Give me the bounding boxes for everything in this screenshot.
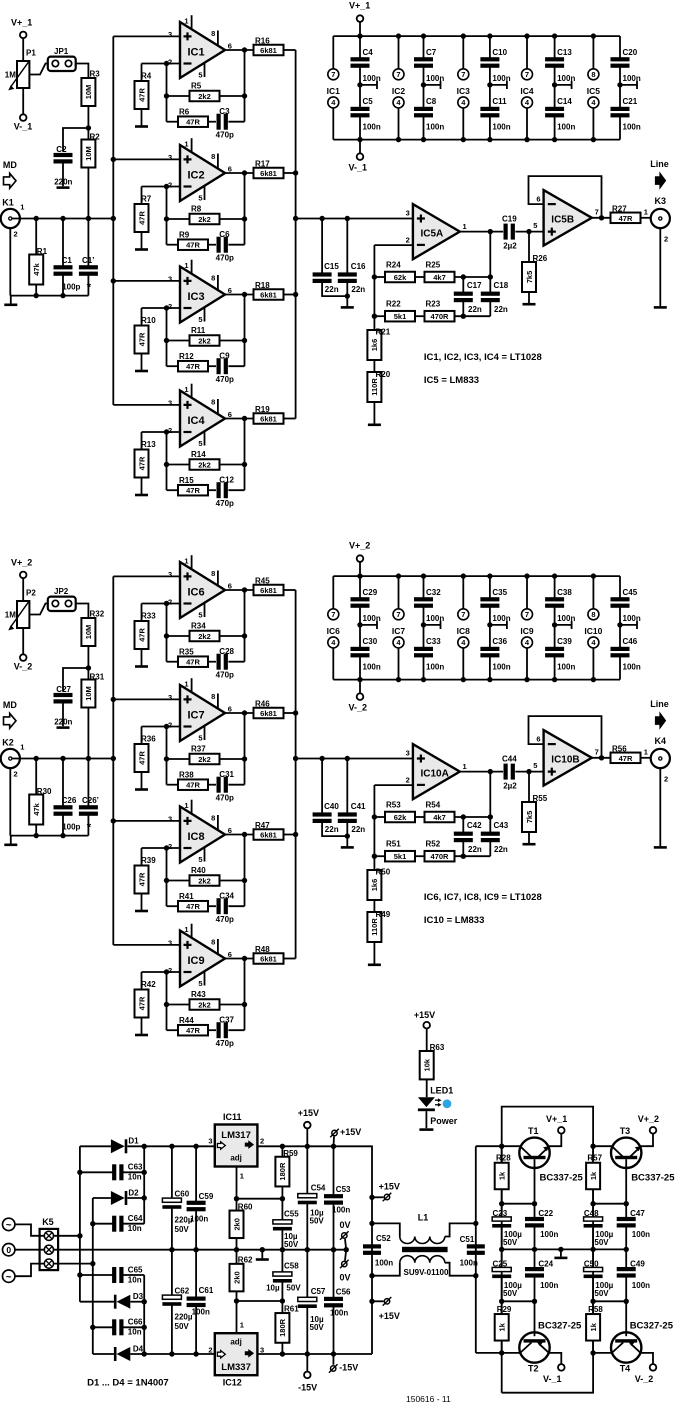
- junction: [90, 1261, 95, 1266]
- resistor R21: [367, 330, 381, 360]
- junction: [591, 33, 596, 38]
- junction: [487, 137, 492, 142]
- svg-text:C26: C26: [62, 796, 77, 805]
- capacitor C15: [321, 219, 323, 274]
- junction: [552, 137, 557, 142]
- svg-text:7: 7: [396, 610, 400, 619]
- junction: [293, 832, 298, 837]
- diode D2: [111, 1191, 125, 1205]
- svg-text:L1: L1: [418, 1213, 429, 1223]
- resistor R34: [167, 635, 190, 637]
- wire: [9, 768, 11, 836]
- wire: [166, 187, 168, 245]
- svg-text:C29: C29: [363, 588, 378, 597]
- wire: [80, 1171, 114, 1173]
- svg-text:470p: 470p: [216, 671, 234, 680]
- 0V terminal: [345, 1239, 346, 1250]
- svg-text:47R: 47R: [137, 88, 146, 102]
- capacitor C61: [195, 1250, 197, 1298]
- junction: [461, 854, 466, 859]
- +15V screw terminal: [333, 1137, 336, 1147]
- resistor R56: [611, 753, 641, 764]
- capacitor C46: [619, 625, 621, 648]
- svg-text:V-_2: V-_2: [349, 703, 368, 713]
- svg-text:0: 0: [6, 1245, 11, 1255]
- wire: [455, 315, 491, 317]
- svg-text:R22: R22: [386, 300, 401, 309]
- wire: [424, 624, 441, 626]
- junction: [164, 969, 169, 974]
- wire: [12, 758, 113, 760]
- svg-text:100n: 100n: [557, 663, 575, 672]
- svg-text:C26’: C26’: [82, 796, 99, 805]
- svg-text:220n: 220n: [54, 718, 72, 727]
- svg-text:100n: 100n: [363, 614, 381, 623]
- ground: [135, 370, 148, 373]
- ground: [261, 1250, 263, 1259]
- wire: [128, 1145, 215, 1147]
- svg-text:R60: R60: [238, 1202, 253, 1211]
- capacitor C9: [208, 365, 216, 367]
- svg-text:C30: C30: [363, 637, 378, 646]
- junction: [552, 33, 557, 38]
- wire: [502, 1107, 593, 1147]
- svg-text:C4: C4: [363, 48, 374, 57]
- wire: [257, 1353, 372, 1355]
- svg-text:22n: 22n: [494, 845, 508, 854]
- svg-text:6k81: 6k81: [260, 291, 277, 300]
- svg-text:R54: R54: [426, 800, 441, 809]
- wire: [476, 1145, 502, 1147]
- wire: [373, 942, 375, 964]
- V-_2 terminal: [359, 680, 361, 694]
- junction: [372, 814, 377, 819]
- svg-text:C33: C33: [426, 637, 441, 646]
- IC power pins IC2: [392, 36, 406, 140]
- svg-text:V+_1: V+_1: [349, 1, 370, 11]
- wire: [113, 35, 180, 37]
- junction: [234, 1247, 239, 1252]
- resistor R51: [374, 855, 385, 857]
- junction: [357, 573, 362, 578]
- resistor R50: [367, 870, 381, 900]
- svg-text:10M: 10M: [84, 625, 93, 640]
- wire: [489, 772, 491, 817]
- svg-text:C13: C13: [557, 48, 572, 57]
- svg-text:C35: C35: [492, 588, 507, 597]
- svg-text:V-_2: V-_2: [14, 661, 33, 671]
- svg-text:47R: 47R: [186, 781, 200, 790]
- capacitor C47: [625, 1204, 627, 1219]
- capacitor C3: [208, 121, 216, 123]
- junction: [357, 137, 362, 142]
- wire: [225, 418, 254, 420]
- junction: [617, 622, 622, 627]
- junction: [396, 137, 401, 142]
- svg-text:R11: R11: [191, 326, 206, 335]
- wire: [592, 1301, 594, 1314]
- svg-text:47R: 47R: [186, 1026, 200, 1035]
- svg-text:100n: 100n: [540, 1230, 558, 1239]
- junction: [164, 305, 169, 310]
- junction: [242, 710, 247, 715]
- junction: [305, 1144, 310, 1149]
- junction: [242, 47, 247, 52]
- wire: [12, 218, 113, 220]
- junction: [280, 1247, 285, 1252]
- capacitor C35: [489, 576, 491, 599]
- wire: [244, 419, 246, 491]
- svg-text:V-_1: V-_1: [349, 163, 368, 173]
- wire: [360, 84, 377, 86]
- svg-text:IC4: IC4: [520, 86, 534, 96]
- junction: [499, 1201, 504, 1206]
- capacitor C31: [208, 784, 216, 786]
- svg-text:5: 5: [198, 979, 202, 988]
- svg-text:3: 3: [168, 30, 172, 39]
- svg-text:BC337-25: BC337-25: [631, 1173, 675, 1184]
- svg-text:47R: 47R: [137, 751, 146, 765]
- wire: [166, 848, 168, 906]
- svg-text:100n: 100n: [492, 614, 510, 623]
- op-amp IC10B: [536, 730, 598, 786]
- svg-text:3: 3: [168, 153, 172, 162]
- resistor R19: [254, 413, 284, 424]
- svg-text:6k81: 6k81: [260, 169, 277, 178]
- svg-text:C11: C11: [492, 97, 507, 106]
- capacitor C43: [489, 817, 491, 833]
- junction: [169, 1144, 174, 1149]
- resistor R40: [167, 880, 190, 882]
- wire: [113, 698, 180, 700]
- op-amp IC1: [168, 15, 232, 79]
- svg-text:220n: 220n: [54, 178, 72, 187]
- junction: [369, 1273, 374, 1278]
- jumper JP2: [48, 587, 76, 611]
- wire: [244, 295, 246, 367]
- junction: [421, 573, 426, 578]
- svg-text:V+_2: V+_2: [11, 558, 32, 568]
- svg-text:MD: MD: [3, 700, 17, 710]
- svg-text:1: 1: [240, 1321, 244, 1330]
- svg-text:C36: C36: [492, 637, 507, 646]
- junction: [617, 82, 622, 87]
- junction: [345, 293, 350, 298]
- svg-text:8: 8: [211, 692, 215, 701]
- wire: [76, 64, 89, 78]
- wire: [333, 679, 620, 681]
- svg-text:2: 2: [14, 770, 18, 779]
- junction: [234, 1196, 239, 1201]
- svg-text:R45: R45: [255, 576, 270, 585]
- ground: [10, 836, 12, 845]
- wire: [80, 1145, 111, 1147]
- svg-text:R44: R44: [179, 1016, 194, 1025]
- svg-text:2k2: 2k2: [198, 1001, 211, 1010]
- transistor T2: [502, 1301, 582, 1384]
- wire: [502, 1203, 535, 1205]
- junction: [86, 216, 91, 221]
- resistor R42: [141, 972, 143, 990]
- svg-text:C22: C22: [538, 1209, 553, 1218]
- junction: [421, 622, 426, 627]
- ground: [654, 306, 667, 309]
- capacitor C55: [281, 1199, 283, 1222]
- svg-text:5: 5: [198, 315, 202, 324]
- junction: [372, 274, 377, 279]
- wire: [225, 49, 254, 51]
- svg-text:50V: 50V: [594, 1238, 609, 1247]
- wire: [620, 624, 637, 626]
- junction: [590, 1350, 595, 1355]
- resistor R6: [167, 121, 179, 123]
- junction: [86, 125, 91, 130]
- svg-text:R9: R9: [179, 230, 190, 239]
- svg-text:IC9: IC9: [520, 626, 534, 636]
- resistor R37: [167, 758, 190, 760]
- svg-text:8: 8: [211, 29, 215, 38]
- svg-text:8: 8: [211, 814, 215, 823]
- wire: [284, 49, 296, 51]
- wire: [63, 668, 88, 691]
- wire: [237, 1198, 283, 1200]
- ground: [560, 1249, 562, 1256]
- capacitor C28: [208, 661, 216, 663]
- potentiometer P1: [17, 61, 29, 88]
- svg-text:IC11: IC11: [223, 1112, 242, 1122]
- resistor R46: [254, 708, 284, 719]
- regulator IC11 LM317: [208, 1112, 264, 1167]
- svg-text:R52: R52: [426, 840, 441, 849]
- svg-text:R30: R30: [37, 787, 52, 796]
- junction: [624, 1201, 629, 1206]
- svg-text:470R: 470R: [431, 852, 450, 861]
- resistor R7: [141, 187, 143, 205]
- wire: [659, 768, 661, 846]
- capacitor C30: [359, 625, 361, 648]
- svg-text:R24: R24: [386, 260, 401, 269]
- svg-text:50V: 50V: [284, 1240, 299, 1249]
- junction: [473, 1273, 478, 1278]
- wire: [15, 1224, 44, 1235]
- resistor R10: [141, 308, 143, 326]
- svg-text:R36: R36: [141, 735, 156, 744]
- svg-text:C16: C16: [351, 262, 366, 271]
- regulator IC12 LM337: [208, 1333, 264, 1387]
- resistor R47: [254, 829, 284, 840]
- wire: [130, 1353, 215, 1355]
- svg-text:2: 2: [664, 775, 668, 784]
- junction: [164, 878, 169, 883]
- junction: [624, 1247, 629, 1252]
- junction: [111, 157, 116, 162]
- svg-text:1: 1: [240, 1172, 244, 1181]
- svg-text:100n: 100n: [426, 74, 444, 83]
- svg-text:~: ~: [6, 1220, 12, 1231]
- svg-text:C17: C17: [467, 281, 482, 290]
- svg-text:220µ: 220µ: [175, 1313, 193, 1322]
- wire: [373, 360, 375, 372]
- capacitor C19: [504, 224, 508, 240]
- resistor R28: [495, 1163, 509, 1190]
- svg-text:47k: 47k: [32, 802, 41, 815]
- wire: [555, 84, 572, 86]
- AC input terminal: [3, 1218, 15, 1230]
- wire: [373, 245, 375, 330]
- wire: [225, 712, 254, 714]
- svg-text:+15V: +15V: [379, 1182, 400, 1192]
- svg-text:1: 1: [644, 208, 648, 217]
- wire: [87, 168, 89, 219]
- junction: [372, 854, 377, 859]
- svg-text:10n: 10n: [128, 1224, 142, 1233]
- svg-text:C5: C5: [363, 97, 374, 106]
- svg-text:180R: 180R: [278, 1162, 287, 1181]
- wire: [87, 708, 89, 759]
- junction: [242, 956, 247, 961]
- junction: [396, 677, 401, 682]
- svg-text:C53: C53: [336, 1185, 351, 1194]
- resistor R52: [415, 855, 425, 857]
- wire: [284, 172, 296, 174]
- svg-text:C46: C46: [623, 637, 638, 646]
- svg-text:1: 1: [184, 385, 188, 394]
- svg-text:100n: 100n: [623, 74, 641, 83]
- wire: [122, 1223, 145, 1225]
- wire: [592, 757, 611, 759]
- svg-text:5: 5: [198, 439, 202, 448]
- svg-text:R41: R41: [179, 892, 194, 901]
- svg-text:R57: R57: [587, 1153, 602, 1162]
- junction: [111, 756, 116, 761]
- op-amp IC2: [168, 138, 232, 202]
- svg-text:4k7: 4k7: [433, 273, 446, 282]
- ground: [341, 306, 354, 309]
- resistor R44: [167, 1029, 179, 1031]
- svg-text:C55: C55: [284, 1209, 299, 1218]
- resistor R35: [167, 661, 179, 663]
- svg-text:P1: P1: [26, 49, 36, 58]
- wire: [10, 295, 88, 297]
- capacitor C27: [54, 693, 73, 697]
- capacitor C21: [619, 85, 621, 108]
- transistor T4: [593, 1301, 674, 1384]
- junction: [552, 573, 557, 578]
- svg-text:100n: 100n: [557, 123, 575, 132]
- svg-text:1k: 1k: [589, 1322, 598, 1331]
- wire: [515, 231, 543, 233]
- svg-text:C42: C42: [467, 821, 482, 830]
- svg-text:C3: C3: [219, 107, 230, 116]
- svg-text:BC337-25: BC337-25: [540, 1173, 584, 1184]
- capacitor C56: [333, 1250, 335, 1299]
- resistor R63: [420, 1051, 434, 1079]
- capacitor C32: [423, 576, 425, 599]
- wire: [113, 280, 180, 282]
- svg-text:C49: C49: [630, 1260, 645, 1269]
- svg-text:8: 8: [591, 70, 595, 79]
- wire: [237, 1300, 283, 1302]
- junction: [591, 137, 596, 142]
- svg-text:2: 2: [406, 235, 410, 244]
- junction: [164, 184, 169, 189]
- wire: [244, 835, 246, 907]
- svg-text:1: 1: [184, 140, 188, 149]
- svg-text:IC2: IC2: [392, 86, 406, 96]
- svg-text:C20: C20: [623, 48, 638, 57]
- junction: [461, 314, 466, 319]
- junction: [280, 1196, 285, 1201]
- svg-text:5: 5: [198, 733, 202, 742]
- V-_2 terminal: [20, 654, 27, 661]
- resistor R43: [167, 1004, 190, 1006]
- wire: [62, 703, 64, 727]
- junction: [242, 170, 247, 175]
- resistor R60: [230, 1211, 244, 1239]
- capacitor C6: [208, 244, 216, 246]
- resistor R54: [415, 816, 425, 818]
- junction: [169, 1247, 174, 1252]
- svg-text:100n: 100n: [426, 663, 444, 672]
- junction: [396, 573, 401, 578]
- svg-text:100n: 100n: [363, 74, 381, 83]
- svg-text:10n: 10n: [128, 1173, 142, 1182]
- capacitor C66: [112, 1319, 116, 1335]
- svg-text:1: 1: [463, 762, 467, 771]
- svg-text:7: 7: [461, 610, 465, 619]
- connector K4: [651, 749, 670, 768]
- svg-text:IC9: IC9: [188, 955, 205, 967]
- svg-text:8: 8: [211, 398, 215, 407]
- svg-text:R51: R51: [386, 840, 401, 849]
- wire: [373, 785, 375, 870]
- capacitor C51: [467, 1244, 485, 1248]
- op-amp IC6: [168, 555, 232, 619]
- ground: [10, 296, 12, 305]
- svg-text:22n: 22n: [325, 285, 339, 294]
- junction: [421, 82, 426, 87]
- wire: [455, 276, 491, 278]
- svg-text:47R: 47R: [186, 658, 200, 667]
- svg-text:IC6: IC6: [327, 626, 341, 636]
- wire: [244, 959, 246, 1031]
- svg-text:3: 3: [168, 275, 172, 284]
- wire: [10, 835, 88, 837]
- junction: [164, 338, 169, 343]
- svg-text:3: 3: [168, 570, 172, 579]
- wire: [63, 128, 88, 151]
- junction: [111, 697, 116, 702]
- svg-text:8: 8: [591, 610, 595, 619]
- svg-text:1: 1: [463, 222, 467, 231]
- resistor R12: [167, 365, 179, 367]
- svg-text:7: 7: [595, 207, 599, 216]
- svg-text:1: 1: [20, 743, 24, 752]
- wire: [225, 294, 254, 296]
- svg-text:C59: C59: [199, 1192, 214, 1201]
- transistor T3: [593, 1114, 675, 1204]
- ground: [135, 788, 148, 791]
- svg-text:47R: 47R: [619, 754, 633, 763]
- svg-text:47R: 47R: [186, 362, 200, 371]
- svg-text:R4: R4: [141, 72, 152, 81]
- wire: [374, 244, 413, 246]
- svg-text:10M: 10M: [84, 85, 93, 100]
- junction: [34, 756, 39, 761]
- junction: [499, 1247, 504, 1252]
- capacitor C50: [592, 1249, 594, 1269]
- svg-text:R14: R14: [191, 450, 206, 459]
